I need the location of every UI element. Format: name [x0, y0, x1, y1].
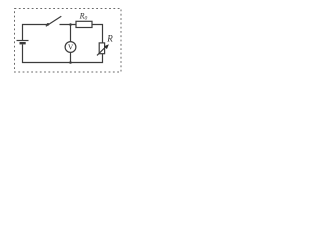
voltmeter stem bottom — [70, 52, 72, 62]
voltmeter stem top — [70, 25, 72, 42]
resistor R0 — [76, 21, 92, 27]
wire: R0 to top-right corner, down to rheostat — [92, 25, 103, 44]
wire left/top: battery to switch — [23, 25, 48, 41]
switch S blade — [46, 16, 62, 26]
wire: switch to R0 — [60, 24, 77, 26]
svg-text:R: R — [106, 33, 113, 43]
rheostat R box — [99, 43, 104, 54]
switch pivot node — [47, 23, 50, 26]
battery negative plate (short thick) — [20, 42, 26, 44]
battery positive plate (long thin) — [17, 40, 29, 42]
node: voltmeter tap bottom — [69, 61, 72, 64]
voltmeter V — [65, 42, 76, 53]
rheostat arrow — [97, 47, 106, 56]
node: voltmeter tap top — [69, 23, 72, 26]
wire: rheostat down and bottom wire back to battery — [23, 45, 103, 63]
svg-text:V: V — [68, 43, 74, 52]
